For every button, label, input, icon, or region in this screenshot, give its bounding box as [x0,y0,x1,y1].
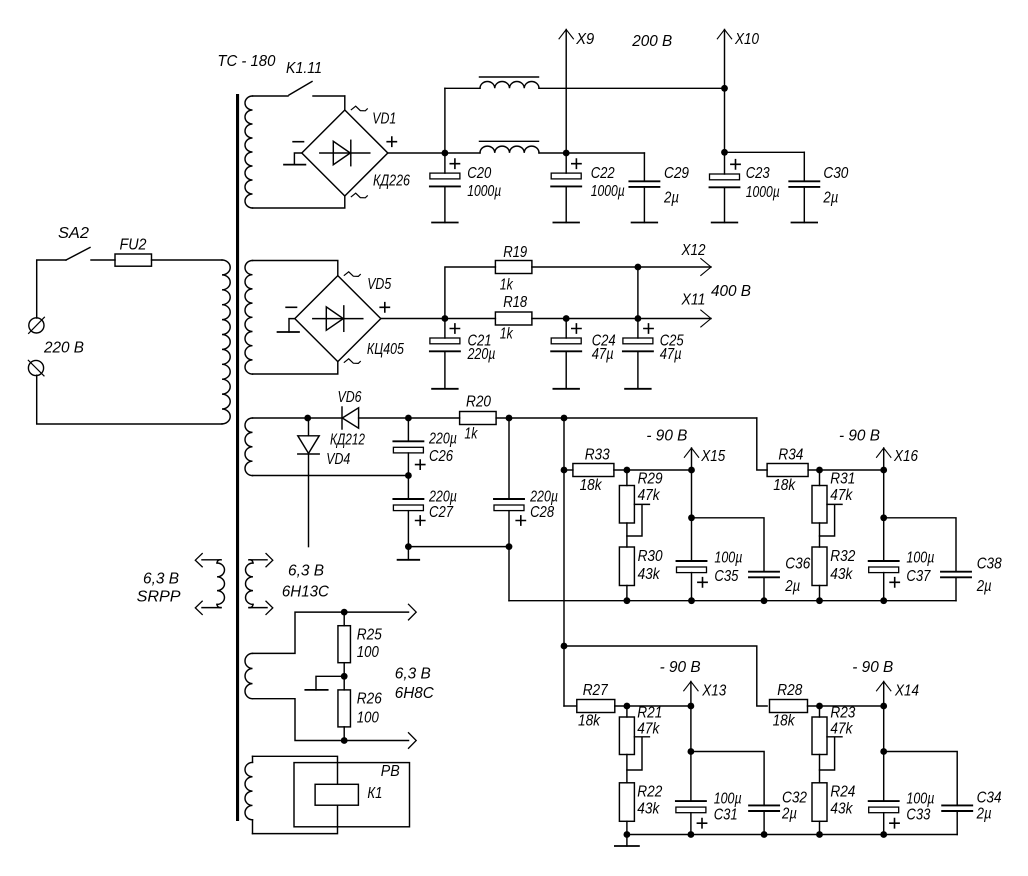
svg-text:43k: 43k [830,566,853,583]
svg-text:1k: 1k [500,326,514,343]
resistor R20 1k [460,412,497,425]
choke L2 bottom [480,146,539,153]
node: R33 branch [561,467,568,474]
svg-text:R34: R34 [778,446,803,463]
svg-text:2µ: 2µ [663,189,679,206]
node: R25 R26 junction [341,673,348,680]
wire: 220V input top wire [37,260,66,318]
svg-text:2µ: 2µ [823,189,839,206]
node: C24 junction [563,315,570,322]
node: X12 junction [635,264,642,271]
svg-text:1000µ: 1000µ [746,184,780,201]
arrow 6Н8С top [409,604,417,620]
wire: branch to C32 [691,752,764,806]
capacitor C38 2u [941,571,971,573]
svg-text:R32: R32 [830,548,855,565]
wire: 6Н8С top out [253,612,409,653]
svg-text:2µ: 2µ [976,578,992,595]
node: rail R24 [816,831,823,838]
svg-text:X14: X14 [894,683,919,700]
wire: R27 to X13 [615,705,691,707]
node: bias branch junction [561,415,568,422]
wire: X10 down to C23 [724,88,726,152]
svg-text:КД226: КД226 [373,173,410,190]
node: C28 junction [506,415,513,422]
wire: bias branch vertical [563,418,565,706]
diode VD4 [308,418,310,436]
svg-text:X15: X15 [700,448,725,465]
node: rail R22 [624,831,631,838]
node: X16 row junction [880,467,887,474]
svg-text:C22: C22 [591,165,615,182]
terminal X16 arrow [883,448,885,561]
resistor R27 18k [577,700,615,713]
svg-text:SRPP: SRPP [137,589,181,606]
svg-text:R18: R18 [503,294,527,311]
bridge rectifier VD5 КЦ405 [295,276,381,362]
terminal X14 arrow [883,682,885,802]
wire: C23 to C30 [725,151,805,153]
node: R30 bottom [624,597,631,604]
relay box РВ [294,763,410,827]
wire: 220V input bottom wire [37,375,222,424]
terminal X15 arrow [691,448,693,561]
wire: minus rail to C28 [408,546,509,548]
node: C28 bottom junction [506,543,513,550]
svg-text:R27: R27 [583,682,609,699]
wire: R19 to X12 [532,266,711,268]
svg-text:2µ: 2µ [784,578,800,595]
svg-text:K1.11: K1.11 [286,60,322,77]
resistor R19 1k [495,261,532,274]
svg-text:КЦ405: КЦ405 [367,341,404,358]
svg-text:18k: 18k [580,477,603,494]
svg-text:R26: R26 [357,691,382,708]
terminal X9 arrow [565,30,567,154]
choke L1 top [445,87,480,89]
svg-text:C34: C34 [977,789,1002,806]
wire: branch to C38 [884,518,956,572]
svg-text:C37: C37 [906,568,931,585]
wire: winding2 top to bridge VD5 [253,261,338,276]
svg-text:2µ: 2µ [781,805,797,822]
svg-text:220µ: 220µ [467,346,496,363]
svg-text:C38: C38 [977,556,1002,573]
resistor R34 18k [767,464,808,477]
relay coil K1 [315,784,358,805]
wire: R18 to X11 [532,318,711,320]
node: C35 bottom [688,597,695,604]
node: C22 / X9 junction [563,150,570,157]
node: C34 branch junction [880,748,887,755]
capacitor C27 220u [407,476,409,500]
trimmer R23 47k [819,706,821,717]
chassis ground lower bias [626,835,628,847]
terminal X: 220V pin 1 [29,318,44,333]
node: rail C33 [880,831,887,838]
node: C37 bottom [880,597,887,604]
wire: X12 to C25 drop [637,267,639,319]
svg-text:C23: C23 [746,165,770,182]
svg-text:R25: R25 [357,626,382,643]
svg-text:- 90 В: - 90 В [839,427,880,444]
svg-text:100: 100 [357,644,379,661]
wire: winding2 bottom to bridge VD5 [253,362,338,374]
bridge rectifier VD1 КД226 [302,110,388,196]
wire: relay winding top to coil [253,756,338,784]
capacitor C34 2u [942,804,972,806]
wire: lower bias bottom rail [627,834,957,836]
node: C20 junction [442,150,449,157]
svg-text:220 В: 220 В [43,340,84,357]
capacitor C26 220u [407,418,409,441]
svg-text:6,3 В: 6,3 В [395,666,431,683]
terminal X12 arrow [701,259,711,276]
capacitor C32 2u [749,804,779,806]
svg-text:R24: R24 [830,784,855,801]
svg-text:6Н13С: 6Н13С [282,584,329,601]
capacitor C21 220u [444,319,446,339]
capacitor C35 100u [677,560,707,562]
node: X10 choke junction [721,85,728,92]
wire: R33 to X15 [614,469,692,471]
terminal X13 arrow [690,682,692,802]
resistor R22 43k [619,783,634,822]
chassis ground at heater center tap [316,676,344,690]
svg-text:R21: R21 [637,705,662,722]
capacitor C30 2u [803,152,805,181]
svg-text:X12: X12 [681,242,706,259]
node: C38 branch junction [880,514,887,521]
transformer core [236,94,239,821]
chassis ground below C27 [407,547,409,560]
svg-text:6,3 В: 6,3 В [143,571,179,588]
node: C36 bottom [761,597,768,604]
svg-text:R20: R20 [466,394,491,411]
wire: R34 to X16 [808,469,884,471]
node: R23 top junction [816,703,823,710]
wire: R28 to X14 [808,705,884,707]
wire: choke L2 output [539,152,644,154]
svg-text:R19: R19 [503,244,527,261]
wire: minus rail drop to bias bottom rail [508,547,510,601]
svg-text:43k: 43k [637,800,660,817]
capacitor C36 2u [749,571,779,573]
node: VD4 junction [304,415,311,422]
wire: choke input riser [444,88,446,153]
svg-text:C27: C27 [429,504,454,521]
terminal X: 220V pin 2 [28,360,43,375]
wire: choke L1 output to X10 [539,87,725,89]
svg-text:C33: C33 [906,806,930,823]
svg-text:43k: 43k [638,566,661,583]
svg-text:43k: 43k [830,800,853,817]
chassis ground at VD5 minus [289,319,295,332]
svg-text:К1: К1 [367,785,382,802]
svg-text:X10: X10 [734,31,759,48]
svg-text:C36: C36 [785,556,810,573]
svg-text:TC - 180: TC - 180 [217,53,275,70]
wire: VD5 output to C21 [381,318,496,320]
resistor R24 43k [812,783,827,822]
wire: VD1 plus output rail 153V level [388,152,480,154]
svg-text:R33: R33 [585,446,610,463]
svg-text:1k: 1k [464,425,478,442]
node: X15 row junction [688,467,695,474]
capacitor C31 100u [676,800,706,802]
wire: fuse to primary winding [152,259,223,261]
trimmer R31 47k [819,470,821,486]
svg-text:C29: C29 [664,165,689,182]
svg-text:VD5: VD5 [367,276,391,293]
svg-text:X9: X9 [575,31,594,48]
wire: bias top rail corner to R34 [757,418,767,470]
node: C21 junction [442,315,449,322]
svg-text:C35: C35 [714,568,738,585]
svg-text:R22: R22 [637,784,662,801]
svg-text:C30: C30 [823,165,848,182]
svg-text:6,3 В: 6,3 В [288,563,324,580]
svg-text:SA2: SA2 [58,225,89,242]
switch contact K1.11 [289,82,312,96]
svg-text:VD4: VD4 [326,451,350,468]
svg-text:1000µ: 1000µ [591,183,625,200]
svg-text:C26: C26 [429,448,453,465]
capacitor C20 1000u [444,153,446,173]
wire: to R20 [408,417,459,419]
svg-text:18k: 18k [578,713,601,730]
svg-text:FU2: FU2 [120,237,147,254]
node: C26 C27 junction [405,472,412,479]
node: R29 top junction [624,467,631,474]
svg-text:220µ: 220µ [428,488,457,505]
svg-text:18k: 18k [773,713,796,730]
wire: winding3 top rail to VD6 [253,417,342,419]
relay winding [252,756,254,762]
capacitor C28 220u [508,418,510,499]
svg-text:КД212: КД212 [330,432,365,449]
svg-text:VD6: VD6 [338,389,362,406]
svg-text:РВ: РВ [381,763,400,780]
svg-text:1000µ: 1000µ [467,183,501,200]
svg-text:- 90 В: - 90 В [660,659,701,676]
resistor R25 100 [343,612,345,626]
capacitor C29 2u [643,153,645,181]
node: C27 ground junction [405,543,412,550]
terminal X11 arrow [701,310,711,327]
node: R25 top [341,609,348,616]
svg-text:R30: R30 [638,548,663,565]
heater winding 6,3V SRPP (left) [217,563,225,604]
wire: 6Н8С bottom out [253,699,409,741]
node: C32 branch junction [688,748,695,755]
svg-text:R31: R31 [830,471,855,488]
svg-text:R29: R29 [638,471,663,488]
resistor R32 43k [812,547,827,586]
svg-text:C28: C28 [530,504,554,521]
svg-text:X11: X11 [681,292,706,309]
resistor R28 18k [770,700,808,713]
node: rail X13 [688,831,695,838]
fuse FU2 [115,254,152,266]
svg-text:18k: 18k [773,477,796,494]
svg-text:1k: 1k [500,276,514,293]
node: X14 row junction [880,703,887,710]
node: C25 junction [635,315,642,322]
node: R26 bottom [341,737,348,744]
svg-text:220µ: 220µ [428,431,457,448]
node: X13 row junction [688,703,695,710]
transformer secondary winding 1 (anode 200V) [245,96,252,208]
svg-text:C32: C32 [782,789,807,806]
svg-text:100: 100 [357,710,379,727]
wire: winding1 bottom to bridge VD1 AC bottom [253,196,345,208]
node: rail C32 [761,831,768,838]
resistor R33 18k [573,464,614,477]
capacitor C23 1000u [724,152,726,174]
svg-text:R23: R23 [830,705,855,722]
wire: relay coil bottom to winding [253,805,338,833]
svg-text:100µ: 100µ [906,550,934,567]
capacitor C24 47u [565,319,567,339]
svg-text:C20: C20 [467,165,491,182]
trimmer R29 47k [626,470,628,486]
arrow 6Н8С bottom [409,733,417,749]
wire: winding1 top to switch [253,95,289,97]
capacitor C33 100u [869,800,899,802]
node: lower bias branch [561,643,568,650]
svg-text:X16: X16 [893,448,918,465]
wire: winding3 bottom rail [253,475,409,477]
svg-text:47k: 47k [830,721,853,738]
trimmer R21 47k [626,706,628,717]
svg-text:- 90 В: - 90 В [852,659,893,676]
switch SA2 [66,248,90,261]
diode VD6 КД212 [341,407,343,429]
node: R21 top junction [624,703,631,710]
wire: to R33 [564,469,573,471]
svg-text:220µ: 220µ [529,488,558,505]
svg-text:R28: R28 [777,682,802,699]
svg-text:C31: C31 [714,806,738,823]
resistor R18 1k [495,312,532,325]
wire: upper bias bottom rail [509,600,956,602]
svg-text:400 В: 400 В [711,283,751,300]
node: R31 top junction [816,467,823,474]
svg-text:100µ: 100µ [714,790,742,807]
wire: branch to C36 [692,518,765,572]
capacitor C22 1000u [565,153,567,173]
wire: riser to R19 [445,267,496,319]
svg-text:47k: 47k [637,721,660,738]
svg-text:47k: 47k [638,487,661,504]
wire: to lower right cell [564,646,767,706]
svg-text:VD1: VD1 [372,110,396,127]
node: R32 bottom [816,597,823,604]
capacitor C37 100u [869,560,899,562]
node: C23 junction [721,149,728,156]
node: C26 junction [405,415,412,422]
svg-text:6Н8С: 6Н8С [395,685,434,702]
transformer T1 primary winding [222,260,230,424]
svg-text:100µ: 100µ [906,790,934,807]
svg-text:47k: 47k [830,487,853,504]
svg-text:47µ: 47µ [660,346,682,363]
heater winding 6,3V 6Н8С [245,653,252,698]
heater winding 6,3V 6Н13С (right) [246,563,254,604]
wire: R20 to bias rail [496,417,757,419]
capacitor C25 47u [637,319,639,339]
transformer secondary winding 2 (anode 400V) [245,261,253,375]
svg-text:200 В: 200 В [631,33,672,50]
svg-text:100µ: 100µ [714,550,742,567]
wire: branch to C34 [884,752,958,806]
wire: branch down to R27 [564,705,577,707]
transformer secondary winding 3 (bias) [245,418,252,476]
resistor R26 100 [338,690,351,727]
wire: to bridge VD1 AC top [344,96,346,110]
resistor R30 43k [619,547,634,586]
svg-text:47µ: 47µ [592,346,614,363]
svg-text:- 90 В: - 90 В [646,427,687,444]
node: C36 branch junction [688,514,695,521]
svg-text:X13: X13 [701,683,726,700]
chassis ground at VD1 minus [294,153,301,165]
svg-text:2µ: 2µ [976,805,992,822]
terminal X10 arrow [724,30,726,89]
